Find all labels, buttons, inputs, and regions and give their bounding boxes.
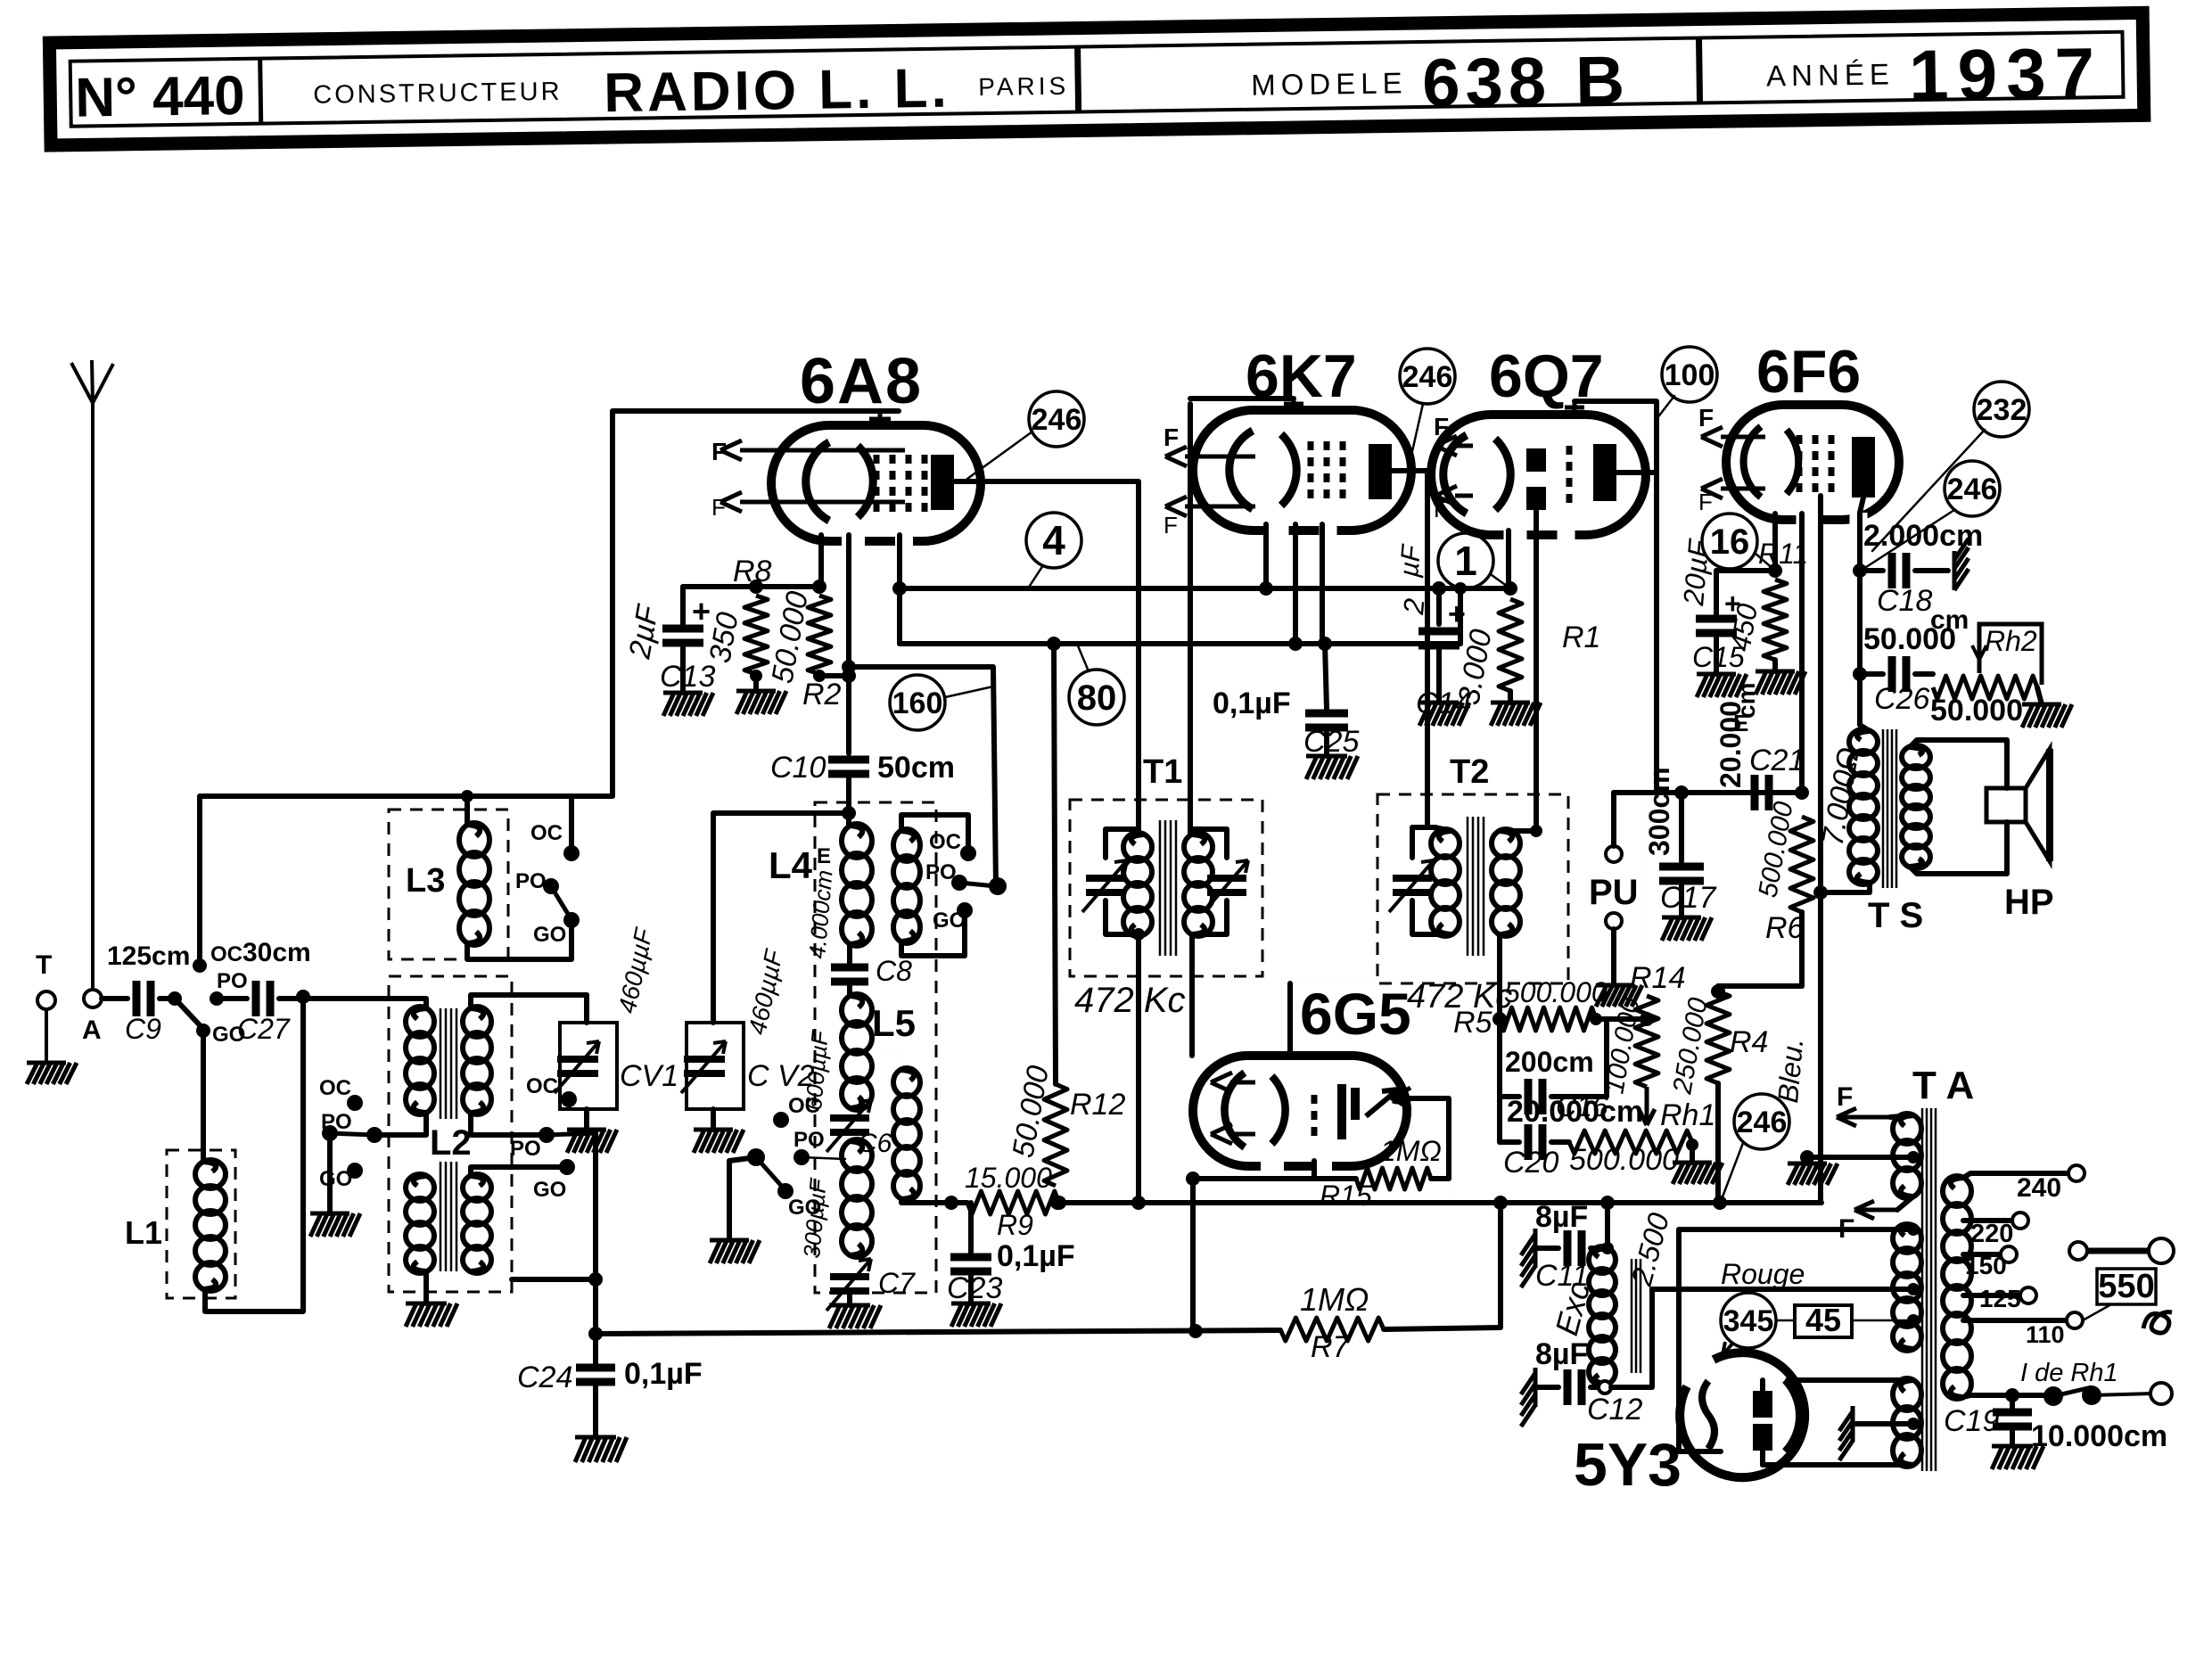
capacitor C11	[1567, 1230, 1582, 1266]
wire L3 top	[465, 796, 470, 825]
junction mid bus 1447	[1289, 1202, 1291, 1204]
junction R8 top	[749, 580, 763, 594]
circled 246 near 6A8	[1029, 391, 1084, 447]
svg-text:T2: T2	[1450, 753, 1489, 791]
ground below C25	[1306, 756, 1358, 779]
wire C20 left	[1500, 1139, 1519, 1145]
svg-text:16: 16	[1710, 522, 1750, 562]
T2 primary trimmer bottom	[1412, 900, 1451, 934]
wire C11 ground link	[1535, 1246, 1558, 1251]
ground below C24	[575, 1437, 627, 1462]
svg-text:110: 110	[2026, 1321, 2065, 1348]
contact GO at oscillator switch	[957, 902, 973, 918]
tube 6G5 envelope	[1193, 1056, 1407, 1175]
power transformer TA core	[1922, 1108, 1936, 1471]
capacitor C8	[831, 967, 868, 982]
svg-text:PO: PO	[510, 1137, 541, 1161]
svg-text:20µF: 20µF	[1677, 537, 1715, 608]
T1 core	[1160, 820, 1176, 956]
circled 246 right of 6K7	[1400, 349, 1455, 404]
wire TA fil mid tap	[1807, 1155, 1913, 1160]
svg-text:240: 240	[2017, 1173, 2061, 1203]
svg-text:Rouge: Rouge	[1721, 1258, 1805, 1290]
svg-text:OC: OC	[530, 821, 563, 845]
svg-text:L5: L5	[872, 1002, 916, 1044]
resistor R1	[1499, 599, 1522, 691]
wire TA fil top	[1890, 1115, 1913, 1117]
wire rail A	[900, 586, 1510, 591]
svg-text:C9: C9	[125, 1013, 161, 1045]
wire C16 right	[1551, 1019, 1607, 1097]
capacitor C27	[256, 981, 270, 1016]
circled 232	[1974, 382, 2029, 437]
6A8 grids mask fix	[937, 449, 939, 451]
resistor R11	[1764, 580, 1787, 660]
svg-text:C18: C18	[1877, 584, 1932, 618]
ground below PU	[1596, 985, 1642, 1007]
wire C13 top	[680, 587, 686, 624]
TA rectifier filament winding	[1893, 1378, 1921, 1467]
6Q7 top cap	[1565, 401, 1584, 415]
tube 6A8 envelope	[771, 425, 981, 550]
svg-text:0,1µF: 0,1µF	[624, 1357, 703, 1391]
wire L2 primary tap to PO	[374, 1113, 426, 1135]
variable capacitor C7	[826, 1259, 871, 1311]
junction R8 bottom	[750, 670, 762, 682]
T2 primary	[1431, 829, 1460, 936]
boxed 550	[2097, 1269, 2156, 1304]
svg-text:50.000: 50.000	[1930, 694, 2023, 728]
capacitor C19	[1993, 1412, 2032, 1426]
capacitor C16	[1528, 1079, 1542, 1114]
wire R2 bottom to pin	[819, 673, 849, 678]
T1 secondary top link	[1192, 829, 1227, 858]
inductor L1	[195, 1160, 226, 1291]
6Q7 filament arrows	[1435, 436, 1473, 506]
svg-text:R11: R11	[1758, 538, 1808, 570]
junction R7 rail	[1188, 1324, 1203, 1338]
svg-text:6F6: 6F6	[1756, 338, 1861, 406]
wire 6Q7 cathode down	[1506, 530, 1511, 588]
wire C11 drop	[1605, 1203, 1610, 1248]
circled 100	[1662, 347, 1717, 402]
svg-text:8µF: 8µF	[1535, 1200, 1588, 1234]
junction C14 rail	[1432, 581, 1446, 596]
svg-text:L1: L1	[125, 1214, 162, 1251]
junction TS bottom Bleu	[1813, 885, 1828, 900]
terminal 220	[2012, 1213, 2028, 1229]
junction T2 secondary top	[1530, 825, 1542, 837]
TS primary bottom	[1821, 883, 1870, 892]
svg-text:R4: R4	[1730, 1025, 1768, 1059]
6A8 grids	[876, 455, 925, 512]
circled 1	[1438, 533, 1493, 588]
svg-text:OC: OC	[319, 1076, 351, 1100]
R14 arrow to Rh1	[1639, 1087, 1655, 1125]
wire L2 box to common	[512, 1277, 596, 1282]
6F6 cathode	[1744, 426, 1799, 497]
resistor R8	[744, 596, 768, 674]
arrow 345	[1723, 1342, 1736, 1355]
6Q7 anode	[1593, 444, 1616, 501]
wire T2 to 6G5	[1287, 983, 1293, 1056]
wire T2 bottom to R5	[1497, 983, 1502, 1019]
L2 primary top	[406, 1007, 434, 1114]
ground right of C18	[1954, 539, 1969, 590]
6A8 filament arrows	[720, 440, 905, 512]
terminal 110	[2067, 1312, 2083, 1328]
svg-text:A: A	[82, 1015, 102, 1045]
junction TA rect mid	[1907, 1418, 1920, 1430]
svg-text:R5: R5	[1453, 1006, 1492, 1040]
6K7 top cap	[1284, 399, 1303, 410]
svg-text:R8: R8	[733, 555, 772, 588]
callout 232	[1872, 430, 1985, 551]
ground below R1	[1491, 703, 1541, 726]
svg-text:GO: GO	[533, 1178, 566, 1202]
wire L2 secondary tap to PO	[471, 1113, 547, 1135]
svg-text:PO: PO	[515, 869, 547, 893]
svg-text:C10: C10	[770, 751, 826, 785]
svg-text:50cm: 50cm	[877, 751, 955, 785]
T1 secondary trimmer bottom	[1192, 900, 1227, 934]
6G5 target	[1342, 1084, 1355, 1139]
wire 5Y3 box left	[1679, 1229, 1913, 1451]
resistor R15	[1356, 1168, 1431, 1189]
svg-text:GO: GO	[933, 908, 966, 933]
svg-text:300cm: 300cm	[1643, 767, 1675, 856]
T2 secondary bottom down	[1497, 934, 1502, 983]
switch lever at L3	[551, 886, 571, 918]
junction TA primary top	[1907, 1223, 1920, 1236]
callout 246 bus	[1722, 1143, 1743, 1199]
junction T1 primary bottom	[1132, 928, 1145, 941]
wire C12 to Exc bottom	[1591, 1385, 1600, 1390]
svg-text:GO: GO	[319, 1167, 352, 1191]
ground TA filament	[1788, 1163, 1838, 1185]
svg-text:F: F	[1837, 1082, 1853, 1112]
ground below R11	[1756, 671, 1805, 695]
variable capacitor CV2 box	[687, 1023, 744, 1109]
svg-text:500.000: 500.000	[1569, 1143, 1679, 1177]
wire thick L to osc switch	[849, 667, 996, 886]
svg-text:L2: L2	[430, 1123, 472, 1163]
wire bias rail	[683, 584, 821, 589]
tube 6Q7 envelope	[1431, 415, 1646, 544]
wire 5Y3 plate top lead	[1760, 1380, 1765, 1391]
ground below C14	[1419, 703, 1469, 726]
wire R4 bottom to bus	[1715, 1083, 1721, 1203]
svg-text:L3: L3	[406, 862, 445, 900]
switch common left of L2	[322, 1125, 338, 1141]
wire L2 secondary bottom to GO	[471, 1167, 567, 1176]
junction riser bus	[1493, 1196, 1508, 1210]
wire 6K7 cathode down	[1263, 524, 1269, 588]
wire tap 125	[1963, 1293, 2020, 1298]
svg-text:1937: 1937	[1908, 33, 2103, 115]
T1 secondary	[1184, 833, 1213, 936]
wire C13 to ground	[680, 645, 686, 693]
junction det line C17	[1674, 785, 1689, 800]
tube 5Y3 envelope	[1680, 1352, 1805, 1477]
junction mid bus R15	[1448, 1202, 1450, 1204]
ground below C15	[1697, 674, 1747, 697]
6Q7 cathode	[1443, 435, 1511, 514]
L2 core	[440, 1008, 456, 1271]
svg-text:345: 345	[1723, 1304, 1774, 1338]
TA primary winding	[1893, 1224, 1921, 1351]
wire 6G5 cathode to R15	[1314, 1176, 1356, 1181]
T1 primary trimmer	[1082, 860, 1127, 912]
svg-text:RADIO L. L.: RADIO L. L.	[604, 58, 950, 125]
junction R5 left	[1492, 1012, 1507, 1026]
svg-text:R12: R12	[1070, 1088, 1125, 1122]
wire det line	[1614, 790, 1802, 795]
T2 secondary	[1492, 829, 1520, 936]
Exc core	[1632, 1259, 1640, 1373]
transformer L2 dashed box	[389, 976, 512, 1292]
wire C25 ground lead	[1324, 730, 1329, 756]
wire rail B	[900, 641, 1460, 646]
L2 secondary top	[463, 1007, 491, 1114]
svg-text:R14: R14	[1630, 961, 1685, 995]
svg-text:C23: C23	[947, 1271, 1002, 1305]
junction R14 mid	[1640, 1012, 1654, 1026]
switch I de Rh1 right	[2082, 1385, 2101, 1405]
wire Exc bottom to Rouge riser	[1611, 1289, 1652, 1387]
junction pin2 R2	[842, 669, 856, 683]
wire 45 to TA	[1852, 1320, 1913, 1322]
terminal PU top	[1606, 846, 1622, 862]
svg-text:+: +	[692, 593, 711, 629]
6G5 filament arrows	[1211, 1073, 1255, 1144]
junction C19	[2005, 1388, 2019, 1402]
ground below C7	[829, 1305, 881, 1328]
6A8 top cap	[869, 411, 891, 425]
svg-text:50.000: 50.000	[1863, 622, 1956, 656]
wire padder common to ground	[729, 1157, 756, 1240]
wire C14 ground lead	[1436, 648, 1442, 703]
svg-text:232: 232	[1977, 393, 2027, 427]
terminal 150	[2001, 1246, 2017, 1262]
wire R5 right	[1596, 1016, 1647, 1022]
title block divider 2	[1078, 47, 1079, 112]
wire 6G5 grid down	[1193, 1161, 1314, 1179]
wire PU top	[1611, 793, 1616, 846]
wire R15 right up	[1393, 1098, 1449, 1179]
svg-text:ANNÉE: ANNÉE	[1766, 57, 1895, 92]
junction Rh1 right	[1686, 1139, 1698, 1151]
wire L4 to C8	[847, 944, 852, 966]
wire R6 bottom	[1799, 912, 1805, 986]
wire C23 lead	[970, 1203, 972, 1244]
Rh2 wiper arrow	[1972, 624, 1986, 660]
6Q7 diode plates	[1526, 448, 1546, 472]
svg-text:C13: C13	[660, 660, 715, 694]
wire 6A8 pin1 down	[818, 535, 824, 587]
svg-text:C25: C25	[1303, 725, 1359, 759]
wire C7 to ground	[847, 1295, 852, 1305]
svg-text:F: F	[711, 494, 726, 521]
svg-text:0,1µF: 0,1µF	[997, 1239, 1075, 1273]
wire C19 lead	[2010, 1395, 2015, 1409]
junction Exc top	[1601, 1242, 1614, 1254]
wire Rh1 wiper ground	[1690, 1142, 1695, 1163]
svg-text:µF: µF	[1394, 543, 1427, 580]
svg-text:R15: R15	[1320, 1180, 1372, 1212]
terminal A	[84, 990, 102, 1007]
svg-text:C27: C27	[237, 1013, 291, 1045]
ground below Rh2	[2022, 704, 2072, 728]
circled 4	[1026, 513, 1081, 568]
capacitor C20	[1528, 1124, 1542, 1160]
wire rail B riser	[1458, 588, 1463, 644]
L2 secondary bottom	[463, 1174, 491, 1273]
coil L1 dashed box	[167, 1150, 235, 1298]
resistor R9	[967, 1191, 1059, 1214]
T1 secondary trimmer	[1204, 860, 1248, 912]
6F6 grids	[1799, 435, 1831, 492]
wire 6K7 plate out	[1392, 471, 1435, 827]
T2 core	[1468, 817, 1484, 956]
padder switch common	[747, 1148, 765, 1166]
terminal T	[37, 991, 55, 1009]
wire R8 to ground	[753, 674, 759, 691]
TA tapped secondary	[1943, 1176, 1971, 1399]
svg-text:CV1: CV1	[620, 1059, 678, 1093]
wire C24 to ground	[593, 1385, 598, 1437]
ground below CV1	[567, 1130, 617, 1153]
capacitor C17	[1659, 867, 1704, 881]
junction mid bus T1	[1131, 1196, 1146, 1210]
T1 secondary bottom down	[1189, 934, 1195, 1056]
wire C26 to Rh2	[1915, 671, 1933, 677]
svg-text:GO: GO	[788, 1196, 821, 1220]
wire R6 link down	[1718, 912, 1802, 986]
6G5 grid	[1312, 1095, 1318, 1141]
contact GO left of L2	[347, 1163, 363, 1179]
junction R1 top	[1503, 581, 1517, 596]
svg-text:30cm: 30cm	[243, 938, 311, 967]
contact PO right of L3	[543, 878, 559, 894]
resistor R12	[1044, 1084, 1067, 1186]
callout 1	[1492, 575, 1510, 588]
wire Bleu down	[1818, 892, 1823, 1203]
contact OC at oscillator switch	[960, 845, 976, 861]
variable capacitor CV1	[555, 1041, 599, 1093]
capacitor C25	[1305, 713, 1348, 728]
wire 5Y3 HT top	[1788, 1377, 1913, 1383]
svg-text:160: 160	[892, 687, 943, 720]
terminal 125	[2020, 1287, 2036, 1303]
svg-text:638 B: 638 B	[1422, 43, 1631, 121]
junction bus C24	[588, 1327, 603, 1341]
svg-text:246: 246	[1737, 1106, 1788, 1139]
callout 16	[1755, 553, 1775, 571]
junction after C27	[296, 990, 310, 1004]
terminal PU bottom	[1606, 913, 1622, 929]
switch circle left	[2069, 1242, 2087, 1260]
resistor R4	[1706, 991, 1730, 1083]
wire 6F6 plate down	[1860, 497, 1863, 725]
svg-text:200cm: 200cm	[1505, 1046, 1594, 1078]
variable capacitor CV1 box	[560, 1023, 617, 1109]
wire C12 ground link	[1535, 1385, 1558, 1390]
potentiometer Rh2 frame	[1979, 624, 2042, 685]
wire to right terminal	[2092, 1394, 2153, 1395]
wire tap 220	[1963, 1218, 2012, 1223]
junction R2 bottom	[813, 670, 826, 682]
TA F arrow top	[1837, 1108, 1890, 1126]
resistor R7	[1280, 1318, 1384, 1341]
contact OC padder	[773, 1112, 789, 1128]
ground below R8	[736, 691, 786, 714]
svg-text:R2: R2	[802, 678, 842, 711]
TS secondary bottom to HP	[1910, 822, 2007, 874]
inductor L4	[842, 824, 872, 946]
junction TA fil mid	[1907, 1151, 1920, 1163]
inductor L5 upper	[842, 994, 872, 1110]
junction TA Rouge tap	[1907, 1283, 1920, 1295]
junction R4 top	[1711, 984, 1725, 999]
T2 primary top link	[1412, 827, 1435, 858]
T2 secondary top link	[1500, 828, 1536, 834]
svg-text:R9: R9	[997, 1209, 1033, 1241]
svg-text:HP: HP	[2004, 883, 2054, 922]
wire 5Y3 plate bottom lead	[1760, 1451, 1765, 1465]
wire C17 ground lead	[1679, 884, 1684, 917]
padder switch lever	[756, 1157, 784, 1188]
output transformer TS core	[1883, 729, 1896, 888]
wire C14 lead	[1436, 588, 1442, 624]
wire rail to OC contact	[569, 796, 574, 853]
wire C21 to R6	[1778, 790, 1802, 795]
junction fil tap	[1800, 1150, 1814, 1164]
R15 arrow into tube	[1393, 1088, 1410, 1109]
junction R12 bottom	[1050, 1196, 1065, 1210]
wire L3 bottom to switch	[467, 920, 572, 959]
capacitor C13	[662, 629, 703, 643]
T1 primary trimmer bottom	[1106, 900, 1144, 934]
switch lever left of L2	[330, 1133, 374, 1135]
junction C16 R5	[1590, 1013, 1602, 1025]
wire 345 to 45	[1776, 1320, 1795, 1322]
junction at R9 right	[1052, 1196, 1066, 1210]
5Y3 plate top	[1753, 1391, 1772, 1418]
wire 6G5 left down	[1190, 1179, 1196, 1328]
wire L2 primary top lead	[415, 999, 426, 1008]
variable capacitor CV2	[681, 1041, 726, 1093]
svg-text:PO: PO	[217, 969, 248, 993]
contact GO padder	[777, 1183, 794, 1199]
IF transformer T2 dashed box	[1377, 794, 1568, 983]
svg-text:I de Rh1: I de Rh1	[2020, 1359, 2118, 1387]
oscillator switch lever	[959, 883, 996, 886]
junction R4 bus	[1713, 1196, 1727, 1210]
wire C17 lead	[1679, 793, 1684, 861]
oscillator pickup coil upper	[893, 829, 920, 943]
wire R4 top	[1718, 985, 1802, 987]
svg-text:N° 440: N° 440	[75, 65, 245, 129]
coil L3 dashed box	[389, 810, 508, 959]
contact GO right of L3	[563, 912, 580, 928]
variable capacitor C6	[826, 1100, 871, 1152]
TA filament winding	[1893, 1114, 1921, 1198]
wire L2 bottom junction	[423, 1271, 429, 1303]
svg-text:F: F	[1434, 413, 1449, 440]
oscillator pickup coil lower	[893, 1068, 920, 1200]
boxed 45	[1795, 1305, 1852, 1337]
